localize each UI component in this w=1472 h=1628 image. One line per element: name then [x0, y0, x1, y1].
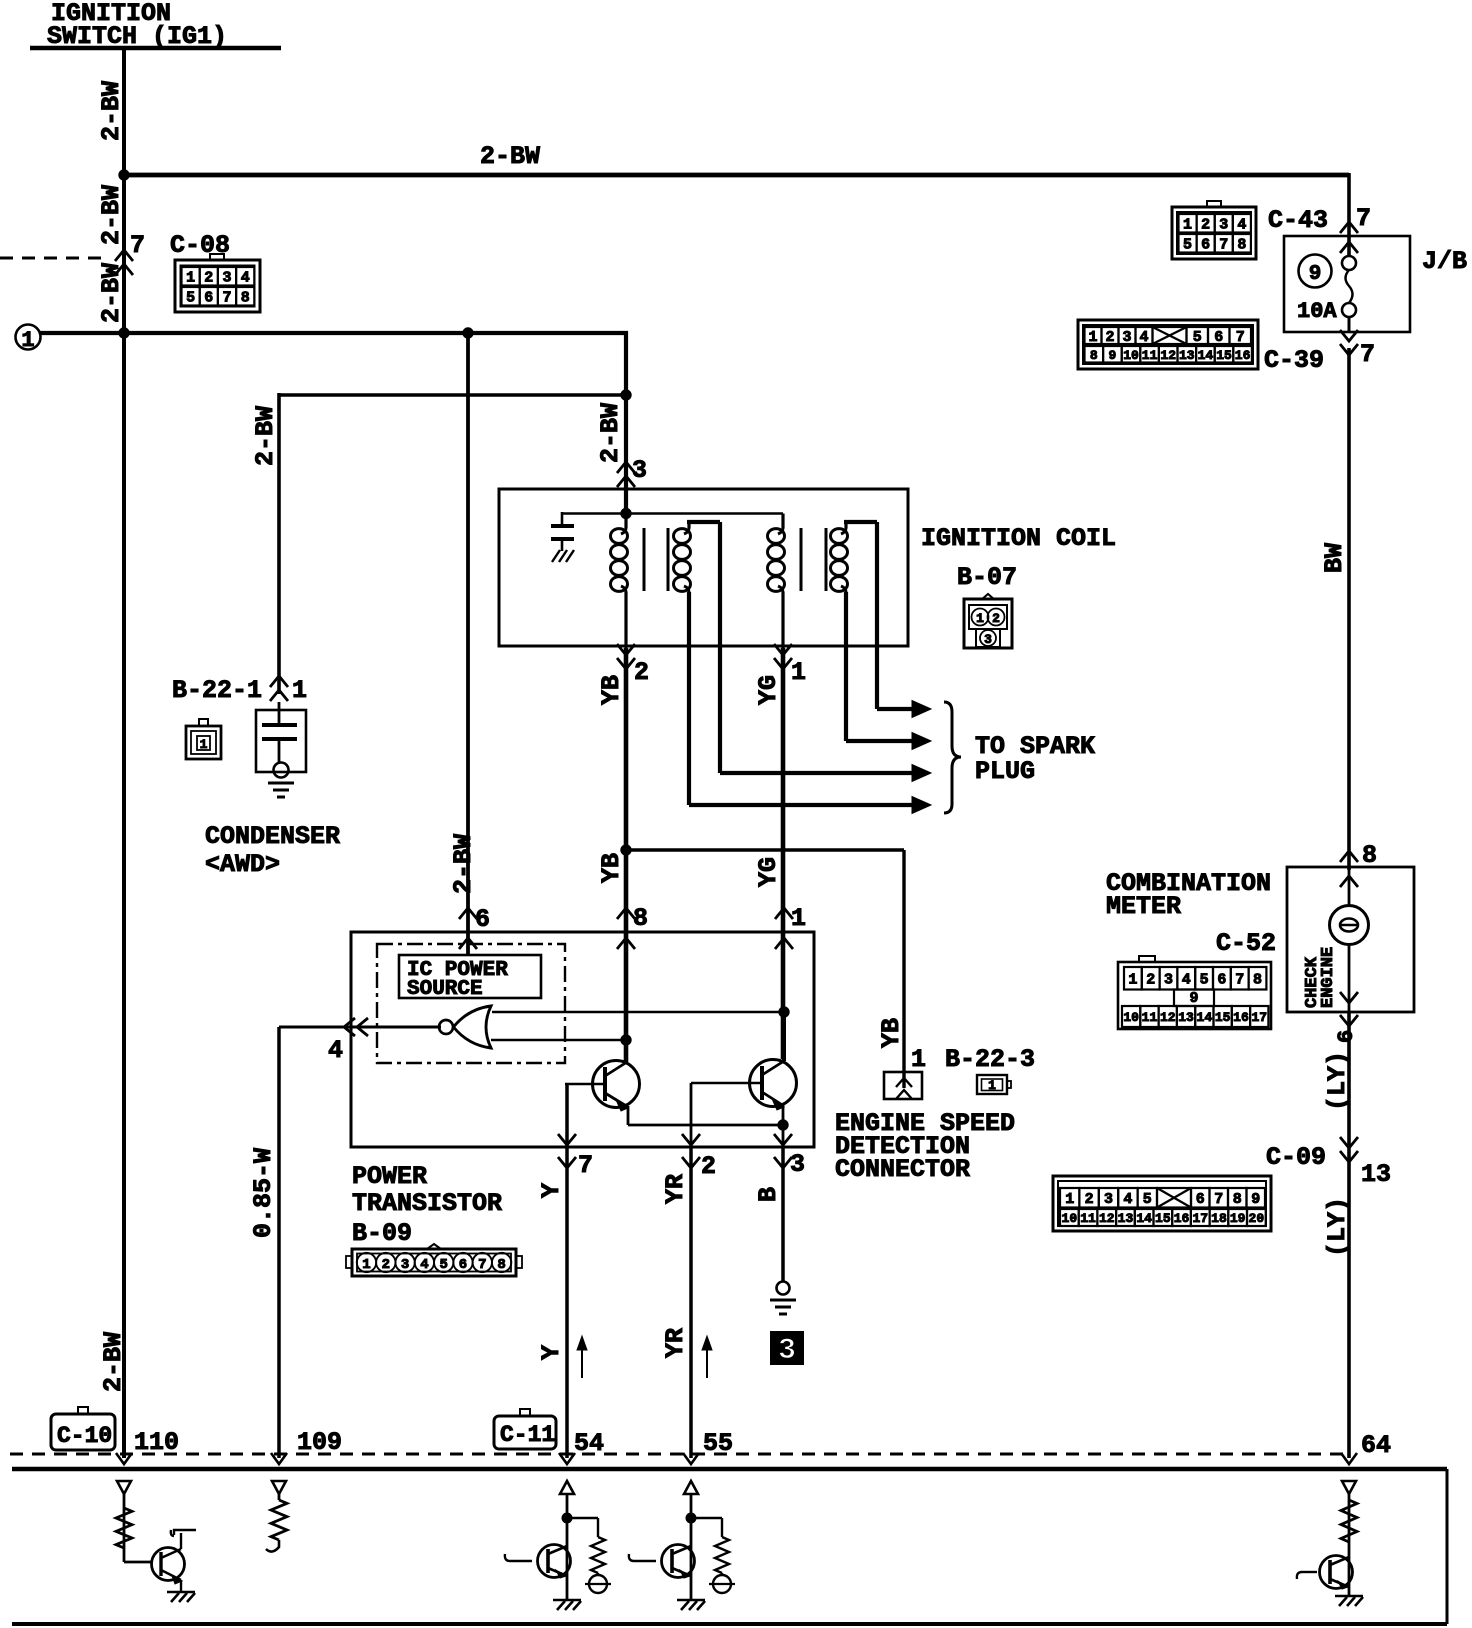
connector C-39 chevrons below J/B	[1340, 330, 1358, 355]
svg-text:8: 8	[1090, 348, 1098, 363]
svg-text:3: 3	[401, 1257, 409, 1273]
svg-text:1: 1	[1088, 329, 1097, 346]
svg-text:(LY): (LY)	[1323, 1051, 1352, 1111]
svg-text:7: 7	[1214, 1191, 1223, 1208]
svg-text:14: 14	[1136, 1211, 1152, 1226]
svg-text:2: 2	[1105, 329, 1114, 346]
svg-text:7: 7	[1356, 204, 1371, 233]
svg-text:10A: 10A	[1297, 299, 1337, 324]
svg-text:7: 7	[130, 231, 145, 260]
svg-text:3: 3	[1104, 1191, 1113, 1208]
svg-text:2: 2	[634, 658, 649, 687]
power transistor pin 6 chevrons	[459, 908, 477, 949]
svg-text:YR: YR	[661, 1174, 690, 1204]
combination meter pin 8 chevrons	[1340, 851, 1358, 887]
transformer T2 secondary winding	[831, 528, 848, 592]
wire 2-BW main horizontal bus to J/B	[122, 173, 1349, 178]
svg-text:19: 19	[1230, 1211, 1246, 1226]
wire Q2 base to pin 2	[690, 1083, 693, 1147]
connector B-07 pin face	[964, 594, 1012, 648]
svg-text:2-BW: 2-BW	[97, 185, 126, 245]
svg-text:6: 6	[1196, 1191, 1205, 1208]
svg-text:7: 7	[578, 1151, 593, 1180]
junction dot at x=124	[119, 328, 129, 338]
svg-text:1: 1	[791, 658, 806, 687]
ECU input triangle at 110	[117, 1481, 131, 1494]
svg-text:3: 3	[984, 632, 992, 647]
direction arrow beside Y	[577, 1336, 587, 1378]
svg-text:3: 3	[790, 1150, 805, 1179]
junction dot inside coil at (626,513)	[621, 508, 631, 518]
wire coil primary bus	[626, 512, 783, 515]
transistor Q6	[1297, 1556, 1353, 1590]
svg-text:1: 1	[1065, 1191, 1074, 1208]
transistor Q3	[152, 1530, 197, 1592]
svg-text:2-BW: 2-BW	[596, 403, 625, 463]
IC section dash-dot box	[377, 944, 565, 1063]
svg-text:64: 64	[1361, 1431, 1391, 1460]
svg-text:C-08: C-08	[170, 231, 230, 260]
svg-text:9: 9	[1189, 990, 1198, 1007]
svg-text:BW: BW	[1320, 543, 1349, 573]
brace to spark plug	[944, 702, 961, 813]
svg-text:1: 1	[1128, 972, 1137, 989]
grid reference marker 3 (black box)	[770, 1331, 804, 1368]
wire 2-BW vertical from ignition switch (x=124)	[122, 48, 126, 1458]
svg-text:YB: YB	[597, 675, 626, 705]
IC POWER SOURCE block	[399, 955, 541, 1001]
svg-text:1: 1	[21, 328, 34, 353]
svg-text:METER: METER	[1106, 892, 1181, 921]
svg-text:5: 5	[1183, 237, 1192, 254]
power transistor pin 7 chevrons	[558, 1134, 576, 1168]
svg-text:15: 15	[1155, 1211, 1171, 1226]
ignition coil pin 2 chevrons	[617, 644, 635, 669]
transformer T1 secondary winding	[674, 528, 691, 592]
svg-text:1: 1	[186, 270, 195, 287]
svg-text:11: 11	[1142, 348, 1158, 363]
wire 2-BW into J/B (x=1349)	[1347, 173, 1351, 256]
svg-text:54: 54	[574, 1429, 604, 1458]
svg-text:B-22-1: B-22-1	[172, 676, 262, 705]
direction arrow beside YR	[702, 1336, 712, 1378]
svg-text:2-BW: 2-BW	[251, 406, 280, 466]
wire B from pin 3 to ground	[781, 1147, 785, 1282]
svg-text:ENGINE: ENGINE	[1319, 947, 1338, 1008]
ECU right edge	[1446, 1469, 1449, 1624]
junction dot at (626,395)	[621, 390, 631, 400]
svg-text:110: 110	[134, 1428, 179, 1457]
wire Q1 emitter run	[628, 1106, 783, 1125]
wire YR from pin 2 to ECU pin 55	[689, 1147, 693, 1458]
combination meter housing box	[1287, 867, 1414, 1012]
svg-text:2: 2	[1201, 217, 1210, 234]
ECU pin 64 arrow	[1341, 1453, 1357, 1464]
svg-text:CONNECTOR: CONNECTOR	[835, 1155, 970, 1184]
svg-text:8: 8	[1233, 1191, 1242, 1208]
wire condenser drop x=279	[277, 393, 281, 694]
wire Q2 collector from gate node	[782, 1012, 786, 1061]
svg-text:9: 9	[1108, 348, 1116, 363]
wire from node 1 to distribution	[40, 331, 628, 335]
connector B-22-1 pin 1 chevrons	[270, 676, 288, 701]
wire 2-BW drop to power transistor pin 6 (x=468)	[466, 333, 470, 955]
svg-text:B-09: B-09	[352, 1219, 412, 1248]
svg-text:20: 20	[1249, 1211, 1265, 1226]
wire T2 secondary bottom lead	[844, 592, 848, 648]
connector C-09 chevrons	[1340, 1137, 1358, 1162]
svg-text:15: 15	[1215, 1010, 1231, 1025]
svg-text:6: 6	[475, 905, 490, 934]
svg-text:<AWD>: <AWD>	[205, 850, 280, 879]
svg-text:5: 5	[1200, 972, 1209, 989]
svg-text:B: B	[754, 1187, 783, 1202]
svg-text:6: 6	[1217, 972, 1226, 989]
fuse F9 10A symbol	[1342, 256, 1356, 331]
ECU input triangle at 109	[272, 1481, 286, 1494]
svg-text:12: 12	[1160, 348, 1176, 363]
connector C-10 icon	[51, 1407, 115, 1450]
wire into check engine lamp	[1348, 867, 1351, 907]
svg-text:2-BW: 2-BW	[99, 1332, 128, 1392]
ECU output stage at pin 55 (triangle, resistor R4, transistor Q5, ground)	[629, 1481, 735, 1610]
power transistor label	[352, 1162, 502, 1248]
svg-text:55: 55	[703, 1429, 733, 1458]
wire spark line 1	[877, 648, 931, 718]
svg-text:TRANSISTOR: TRANSISTOR	[352, 1189, 502, 1218]
transformer T2 core	[801, 528, 826, 591]
svg-text:8: 8	[633, 904, 648, 933]
svg-text:1: 1	[976, 611, 984, 626]
svg-text:11: 11	[1142, 1010, 1158, 1025]
wire YG from coil pin 1	[781, 648, 786, 1059]
svg-text:4: 4	[1139, 329, 1148, 346]
power transistor B-09 housing box	[351, 932, 814, 1147]
ECU bottom edge	[12, 1622, 1447, 1626]
node IGNITION SWITCH (IG1) label	[47, 0, 227, 51]
svg-text:12: 12	[1099, 1211, 1115, 1226]
svg-text:13: 13	[1118, 1211, 1134, 1226]
svg-text:2: 2	[1085, 1191, 1094, 1208]
wire T1 secondary bottom lead	[687, 592, 691, 648]
svg-text:C-11: C-11	[500, 1422, 555, 1448]
connector B-22-1 pin face icon	[186, 719, 221, 759]
svg-text:5: 5	[1143, 1191, 1152, 1208]
ground circle below condenser	[274, 763, 289, 778]
TO SPARK PLUG label	[975, 732, 1095, 786]
svg-text:7: 7	[1219, 237, 1228, 254]
svg-text:Y: Y	[537, 1345, 566, 1360]
ground circle of B wire	[777, 1282, 790, 1295]
dashed harness boundary at C-08	[0, 257, 106, 260]
ignition switch bus bar	[30, 46, 281, 51]
svg-text:1: 1	[988, 1078, 996, 1093]
svg-text:C-10: C-10	[57, 1423, 112, 1449]
svg-text:14: 14	[1198, 348, 1214, 363]
svg-text:6: 6	[459, 1257, 467, 1273]
svg-text:10: 10	[1123, 348, 1139, 363]
wire YB branch to engine speed detection connector	[626, 850, 904, 1088]
wire 110 internal	[123, 1494, 126, 1562]
svg-text:B-07: B-07	[957, 563, 1017, 592]
svg-text:2: 2	[382, 1257, 390, 1273]
engine speed detection connector label	[835, 1109, 1015, 1184]
svg-text:14: 14	[1197, 1010, 1213, 1025]
svg-text:9: 9	[1251, 1191, 1260, 1208]
capacitor (noise suppressor) plates	[551, 526, 574, 551]
svg-text:5: 5	[1193, 329, 1202, 346]
svg-text:7: 7	[1235, 972, 1244, 989]
svg-text:4: 4	[328, 1036, 343, 1065]
power transistor pin 8 chevrons	[617, 908, 635, 949]
wire spark line 4	[689, 648, 931, 814]
svg-text:3: 3	[222, 270, 231, 287]
connector C-52 pin face	[1118, 956, 1271, 1029]
engine speed detection connector terminal box	[884, 1072, 922, 1099]
junction at bus tap	[119, 170, 129, 180]
ground of Q3	[167, 1592, 195, 1602]
svg-text:1: 1	[1183, 217, 1192, 234]
svg-text:PLUG: PLUG	[975, 757, 1035, 786]
svg-text:SOURCE: SOURCE	[407, 978, 483, 1001]
svg-text:Y: Y	[537, 1183, 566, 1198]
svg-text:4: 4	[420, 1257, 428, 1273]
svg-text:YG: YG	[754, 675, 783, 705]
node 1 (circled page connector)	[16, 325, 41, 354]
transistor Q1	[565, 1061, 640, 1112]
svg-text:10: 10	[1062, 1211, 1078, 1226]
svg-text:C-09: C-09	[1266, 1143, 1326, 1172]
transformer T1 primary winding	[611, 514, 628, 649]
svg-text:7: 7	[478, 1257, 486, 1273]
wire to Q3 base	[124, 1561, 151, 1564]
svg-text:7: 7	[1236, 329, 1245, 346]
svg-text:4: 4	[241, 270, 250, 287]
svg-text:6: 6	[1201, 237, 1210, 254]
svg-text:6: 6	[1214, 329, 1223, 346]
svg-text:8: 8	[1237, 237, 1246, 254]
connector C-09 pin face	[1053, 1176, 1271, 1231]
combination meter pin 6 chevrons	[1340, 992, 1358, 1026]
ignition coil housing box	[499, 489, 908, 646]
ECU pin 55 arrow	[683, 1453, 699, 1464]
svg-text:(LY): (LY)	[1323, 1197, 1352, 1257]
svg-text:2-BW: 2-BW	[449, 834, 478, 894]
svg-text:3: 3	[1164, 972, 1173, 989]
ECU pin 109 arrow	[271, 1453, 287, 1464]
wire Q2 emitter to pin 3	[782, 1104, 785, 1147]
wire gate input upper from YG line	[492, 1011, 784, 1014]
svg-text:1: 1	[911, 1045, 926, 1074]
svg-text:3: 3	[1122, 329, 1131, 346]
connector C-08 pin face	[175, 254, 260, 312]
ECU output stage at pin 54 (triangle, resistor R3, transistor Q4, ground)	[505, 1481, 611, 1610]
svg-text:10: 10	[1123, 1010, 1139, 1025]
svg-text:8: 8	[1253, 972, 1262, 989]
wire T2 secondary top lead to spark line 1	[844, 522, 877, 648]
resistor R1 at pin 110	[116, 1508, 132, 1548]
wire YB from coil pin 2	[624, 648, 629, 1062]
svg-text:CONDENSER: CONDENSER	[205, 822, 340, 851]
svg-text:1: 1	[791, 904, 806, 933]
svg-text:7: 7	[1360, 340, 1375, 369]
resistor R2 at pin 109	[266, 1494, 287, 1552]
connector C-43 pin face	[1172, 201, 1256, 259]
svg-text:YB: YB	[877, 1018, 906, 1048]
junction dot YB branch	[621, 845, 631, 855]
svg-text:B-22-3: B-22-3	[945, 1045, 1035, 1074]
svg-text:2: 2	[204, 270, 213, 287]
dashed connector boundary line	[10, 1453, 1349, 1456]
svg-text:2: 2	[701, 1152, 716, 1181]
svg-text:3: 3	[1219, 217, 1228, 234]
wire BW from C-39 to combination meter	[1347, 348, 1351, 870]
svg-text:5: 5	[439, 1257, 447, 1273]
power transistor pin 1 chevrons	[775, 908, 793, 949]
svg-text:J/B: J/B	[1422, 247, 1467, 276]
ECU pin 54 arrow	[559, 1453, 575, 1464]
svg-text:16: 16	[1174, 1211, 1190, 1226]
transistor Q2	[691, 1060, 797, 1111]
junction dot gate input upper	[779, 1007, 789, 1017]
svg-text:6: 6	[204, 290, 213, 307]
wire gate input lower from YB line	[491, 1039, 626, 1042]
svg-text:16: 16	[1235, 348, 1251, 363]
power transistor pin 3 chevrons	[774, 1134, 792, 1168]
connector C-43 chevrons	[1340, 222, 1358, 253]
ground (earth) of B wire	[770, 1300, 796, 1314]
wire spark line 3	[720, 648, 931, 782]
svg-text:2-BW: 2-BW	[97, 263, 126, 323]
wire drop to condenser feed corner	[624, 331, 628, 395]
CHECK ENGINE label (rotated)	[1303, 947, 1338, 1008]
condenser label	[205, 822, 340, 879]
svg-text:2-BW: 2-BW	[97, 81, 126, 141]
wire 0.85-W from pin 4 to ECU pin 109	[277, 1027, 281, 1458]
svg-text:C-52: C-52	[1216, 929, 1276, 958]
svg-text:4: 4	[1123, 1191, 1132, 1208]
wire (LY) from meter to C-09	[1347, 1012, 1351, 1458]
ground of Q6	[1335, 1596, 1363, 1606]
svg-text:1: 1	[200, 737, 208, 752]
wire gate output to pin 4	[279, 1018, 441, 1036]
svg-text:17: 17	[1192, 1211, 1208, 1226]
junction dot emitter bus	[778, 1120, 788, 1130]
logic gate U1 (nor)	[439, 1006, 491, 1048]
wire condenser branch horizontal y=395	[279, 393, 626, 397]
junction dot at x=468	[463, 328, 473, 338]
svg-text:YR: YR	[661, 1328, 690, 1358]
svg-text:C-39: C-39	[1264, 346, 1324, 375]
svg-text:11: 11	[1080, 1211, 1096, 1226]
svg-text:4: 4	[1182, 972, 1191, 989]
svg-text:1: 1	[362, 1257, 370, 1273]
svg-text:3: 3	[778, 1334, 796, 1368]
ignition coil pin 3 chevrons	[617, 462, 635, 487]
svg-text:3: 3	[632, 456, 647, 485]
ignition coil pin 1 chevrons	[774, 644, 792, 669]
wire spark line 2	[846, 648, 931, 750]
svg-text:18: 18	[1211, 1211, 1227, 1226]
svg-text:9: 9	[1309, 263, 1322, 286]
svg-text:13: 13	[1361, 1160, 1391, 1189]
ECU input triangle at 64	[1342, 1481, 1356, 1494]
wire lamp to meter pin 6	[1348, 944, 1351, 1012]
svg-text:8: 8	[241, 290, 250, 307]
junction block J/B box	[1284, 236, 1410, 332]
check engine lamp	[1330, 906, 1369, 945]
wire Y from pin 7 to ECU pin 54	[565, 1084, 569, 1458]
svg-text:2: 2	[992, 611, 1000, 626]
ground (earth) of condenser	[268, 783, 294, 797]
power transistor pin 2 chevrons	[682, 1134, 700, 1168]
resistor R5 at pin 64	[1341, 1500, 1357, 1542]
combination meter label	[1106, 869, 1271, 921]
svg-text:109: 109	[297, 1428, 342, 1457]
svg-text:1: 1	[292, 676, 307, 705]
fuse 9 circled number	[1299, 255, 1332, 288]
svg-text:6: 6	[1334, 1030, 1359, 1043]
capacitor C1 plates	[262, 702, 297, 762]
svg-text:8: 8	[497, 1257, 505, 1273]
svg-text:4: 4	[1237, 217, 1246, 234]
svg-text:YB: YB	[597, 853, 626, 883]
connector B-09 pin face	[346, 1244, 522, 1276]
svg-text:2: 2	[1146, 972, 1155, 989]
svg-text:12: 12	[1160, 1010, 1176, 1025]
svg-text:13: 13	[1179, 348, 1195, 363]
svg-text:7: 7	[222, 290, 231, 307]
connector C-08 pin 7 chevrons	[115, 250, 133, 275]
capacitor C1 condenser body box	[256, 710, 306, 772]
svg-text:5: 5	[186, 290, 195, 307]
svg-text:IGNITION COIL: IGNITION COIL	[921, 524, 1116, 553]
wire to noise capacitor	[562, 512, 626, 515]
ground (hatch) of noise capacitor	[552, 550, 574, 562]
wire 64 internal	[1348, 1494, 1351, 1596]
svg-text:16: 16	[1233, 1010, 1249, 1025]
connector C-39 pin face	[1078, 320, 1258, 369]
svg-text:C-43: C-43	[1268, 206, 1328, 235]
svg-text:0.85-W: 0.85-W	[249, 1148, 278, 1238]
junction dot gate input lower	[621, 1035, 631, 1045]
transformer T2 primary winding	[768, 514, 785, 649]
svg-text:13: 13	[1178, 1010, 1194, 1025]
svg-text:17: 17	[1251, 1010, 1267, 1025]
connector B-22-3 pin face icon	[977, 1075, 1011, 1094]
svg-text:15: 15	[1216, 348, 1232, 363]
ECU top edge	[12, 1467, 1447, 1472]
transformer T1 core	[644, 528, 668, 591]
ECU pin 110 arrow	[116, 1453, 132, 1464]
wire 2-BW drop to ignition coil pin 3	[624, 395, 628, 515]
svg-text:2-BW: 2-BW	[480, 142, 540, 171]
wire T1 secondary top lead to spark line 3	[687, 522, 720, 648]
connector C-11 icon	[494, 1409, 556, 1449]
svg-text:YG: YG	[754, 857, 783, 887]
svg-text:POWER: POWER	[352, 1162, 427, 1191]
